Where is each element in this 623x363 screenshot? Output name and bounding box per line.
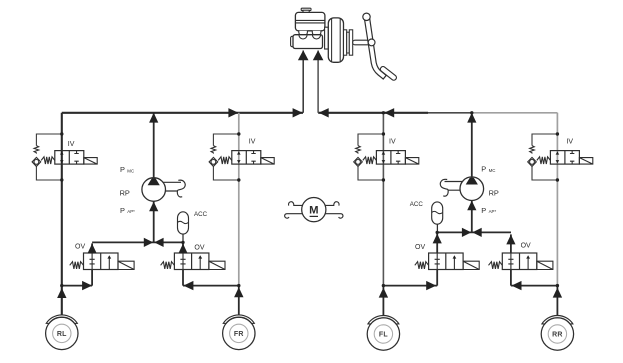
node FR OV branch xyxy=(237,284,240,287)
svg-text:FL: FL xyxy=(379,332,388,339)
left pump drive cam hook xyxy=(163,180,185,197)
svg-text:AP*: AP* xyxy=(489,209,497,214)
wire: RL outlet-valve inlet branch from RL rail xyxy=(62,270,92,286)
node FR bypass top xyxy=(237,132,240,135)
svg-text:RL: RL xyxy=(57,331,67,338)
wire: left accumulator drop line xyxy=(182,234,184,242)
wire: RR outlet-valve outlet riser xyxy=(510,234,512,252)
svg-text:MC: MC xyxy=(489,168,496,173)
arrow up FR OV outlet riser xyxy=(178,244,187,254)
arrow left RR OV inlet branch xyxy=(512,281,522,290)
arrow up from right pump into bus xyxy=(467,113,476,123)
node RR OV branch xyxy=(556,284,559,287)
node FL bypass bottom xyxy=(382,178,385,181)
node FR bypass bottom xyxy=(237,178,240,181)
wire: FR outlet-valve inlet branch from FR rail xyxy=(183,270,239,286)
wire: RR outlet-valve inlet branch from RR rail xyxy=(511,269,558,286)
svg-text:ACC: ACC xyxy=(410,201,424,208)
bowtie converge arrows at left pump suction junction xyxy=(144,238,153,247)
wire: FR wheel stem (dark) below OV branch node xyxy=(238,286,240,316)
svg-text:P: P xyxy=(481,164,486,173)
arrow up into left MC port xyxy=(298,50,309,60)
arrow up RL OV outlet riser xyxy=(88,244,97,254)
node RL bypass bottom xyxy=(60,178,63,181)
wheel brake FL xyxy=(367,318,399,350)
svg-text:IV: IV xyxy=(566,139,573,146)
wire: RR wheel stem below OV branch node xyxy=(556,286,558,317)
svg-text:AP*: AP* xyxy=(127,209,135,214)
node RL OV branch xyxy=(60,284,63,287)
wire: FL wheel stem below OV branch node xyxy=(382,286,384,317)
wire: left pump suction line from OV return junction up to pump xyxy=(153,201,155,242)
node RR bypass bottom xyxy=(556,178,559,181)
wire: FR outlet-valve outlet riser xyxy=(182,243,184,253)
node left ACC junction xyxy=(181,241,184,244)
arrow up on FL wheel stem xyxy=(379,288,388,298)
wire: right supply bus medium segment x=428 to pump junction xyxy=(428,112,472,114)
arrow up on RL wheel stem xyxy=(57,288,66,298)
wire: left supply bus from RL rail corner to left MC port line xyxy=(62,112,303,114)
svg-text:IV: IV xyxy=(249,138,256,145)
svg-text:RP: RP xyxy=(120,188,130,197)
brake pedal xyxy=(364,15,386,79)
right pump drive cam hook xyxy=(440,179,462,196)
outlet valve OV (RR circuit) xyxy=(502,253,537,270)
inlet valve IV (FL circuit) with bypass check valve xyxy=(358,134,383,180)
arrow up from left pump into bus xyxy=(149,113,158,123)
arrow up into right MC port xyxy=(313,50,324,60)
electric motor M xyxy=(289,202,303,206)
accumulator ACC (left) xyxy=(178,212,189,234)
node FL bus junction xyxy=(382,111,385,114)
arrow left on right bus into FL rail junction xyxy=(384,108,394,117)
outlet valve OV (FL circuit) xyxy=(429,253,464,270)
bowtie converge arrows at right pump suction junction xyxy=(462,228,471,237)
svg-text:OV: OV xyxy=(75,244,85,251)
accumulator ACC (right) xyxy=(432,202,443,224)
wire: master cylinder secondary outlet line (right) xyxy=(317,51,319,113)
wire: FL outlet-valve outlet riser xyxy=(436,233,438,252)
wire: right supply bus light segment pump junction to RR corner xyxy=(472,112,558,114)
arrow up into left pump suction xyxy=(149,202,158,212)
wire: right accumulator drop line xyxy=(436,224,438,232)
wire: left pump discharge line from bus down to pump RP xyxy=(153,113,155,178)
arrow left on right bus into MC line junction xyxy=(319,108,329,117)
wheel brake RL xyxy=(46,317,78,349)
inlet valve IV (FR circuit) with bypass check valve xyxy=(213,134,238,180)
wire: FL rail (dark gray) from bus to OV branch node xyxy=(382,113,384,286)
node RR bypass top xyxy=(556,132,559,135)
svg-text:OV: OV xyxy=(521,243,531,250)
arrow up on RR wheel stem xyxy=(553,288,562,298)
svg-text:RP: RP xyxy=(489,188,499,197)
arrow right FL OV inlet branch xyxy=(426,281,436,290)
wire: RL outlet-valve outlet riser xyxy=(91,243,93,253)
wheel brake FR xyxy=(223,317,255,349)
master cylinder with fluid reservoir xyxy=(301,8,311,10)
node FL bypass top xyxy=(382,132,385,135)
svg-text:RR: RR xyxy=(552,332,563,339)
arrow up FL OV outlet riser xyxy=(433,234,442,244)
outlet valve OV (RL circuit) xyxy=(84,253,119,270)
inlet valve IV (RL circuit) with bypass check valve xyxy=(36,134,61,180)
wire: master cylinder primary outlet line (left) xyxy=(302,51,304,113)
wire: right supply bus thick segment from right MC port line to x=428 xyxy=(318,112,428,114)
arrow up on FR wheel stem xyxy=(234,287,243,297)
wire: RL rail (thick) from bus to RL wheel xyxy=(61,113,63,316)
booster push rod xyxy=(353,40,373,45)
svg-text:M: M xyxy=(309,205,318,217)
svg-text:OV: OV xyxy=(194,245,204,252)
arrow up RR OV outlet riser xyxy=(506,235,515,245)
svg-text:FR: FR xyxy=(234,331,244,338)
arrow left FR OV inlet branch xyxy=(183,281,193,290)
wire: FL outlet-valve inlet branch from FL rail xyxy=(383,269,437,286)
wire: FR rail (light) from bus to OV branch node xyxy=(238,113,240,286)
wire: right pump suction line from OV return junction up to pump xyxy=(471,200,473,232)
node FL OV branch xyxy=(382,284,385,287)
arrow right RL OV inlet branch xyxy=(82,281,92,290)
svg-text:P: P xyxy=(120,165,125,174)
vacuum brake booster xyxy=(325,27,329,49)
svg-text:P: P xyxy=(120,206,125,215)
svg-text:IV: IV xyxy=(389,138,396,145)
outlet valve OV (FR circuit) xyxy=(174,253,209,270)
node right ACC junction xyxy=(436,231,439,234)
svg-text:IV: IV xyxy=(68,141,75,148)
arrow right on left bus into FR rail junction xyxy=(228,108,238,117)
inlet valve IV (RR circuit) with bypass check valve xyxy=(532,134,557,180)
wire: right OV return manifold line xyxy=(437,231,511,233)
wire: RR rail (light) from bus corner to OV branch node xyxy=(556,113,558,286)
node right pump bus junction xyxy=(470,111,473,114)
arrow up into right pump suction xyxy=(467,201,476,211)
svg-text:ACC: ACC xyxy=(194,211,208,218)
node RL bypass top xyxy=(60,132,63,135)
wire: right pump discharge line from bus down to pump RP xyxy=(471,113,473,178)
svg-text:OV: OV xyxy=(415,244,425,251)
wire: left OV return manifold line xyxy=(92,241,183,243)
svg-text:MC: MC xyxy=(127,169,134,174)
arrow right on left bus into MC line junction xyxy=(293,108,303,117)
wheel brake RR xyxy=(541,318,573,350)
svg-text:P: P xyxy=(481,206,486,215)
